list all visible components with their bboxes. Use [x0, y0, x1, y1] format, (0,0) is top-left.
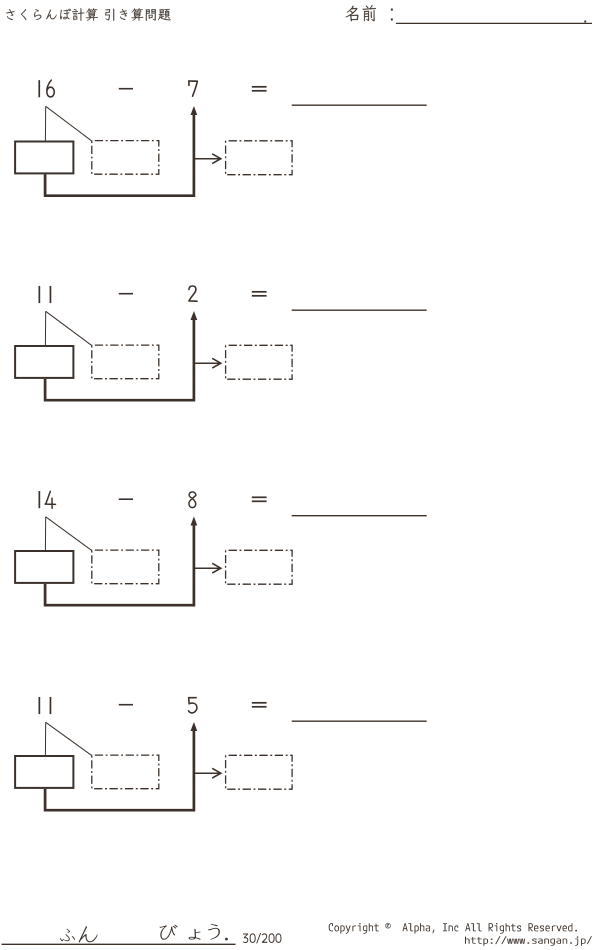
right arrow [195, 567, 220, 569]
name underline [396, 22, 592, 24]
solid answer box [15, 756, 73, 788]
page number 30/200 [243, 933, 282, 943]
dashed box 1 [92, 550, 159, 584]
answer blank line [292, 515, 427, 517]
answer blank line [292, 104, 427, 106]
cherry stem left branch [44, 106, 46, 140]
dashed box 1 [92, 345, 159, 379]
cherry stem right branch [46, 311, 92, 345]
solid answer box [15, 142, 73, 174]
footer period [225, 938, 228, 941]
footer underline [2, 943, 236, 945]
name colon [391, 9, 393, 11]
equals sign [252, 496, 267, 498]
thick feedback path [45, 524, 194, 606]
minus sign [119, 88, 133, 90]
right arrow [195, 362, 220, 364]
up arrowhead [191, 722, 198, 731]
subtrahend 5 [189, 698, 197, 713]
dashed result box [226, 141, 293, 175]
equals sign [252, 86, 267, 88]
problem 4: 11 minus 5 [15, 697, 427, 810]
answer blank line [292, 309, 427, 311]
problem 3: 14 minus 8 [15, 491, 427, 605]
minuend 16 [38, 80, 40, 97]
thick feedback path [45, 113, 194, 196]
minuend 11 [38, 697, 40, 714]
solid answer box [15, 346, 73, 378]
cherry stem right branch [46, 722, 92, 755]
problem 2: 11 minus 2 [15, 286, 427, 400]
right arrow [195, 772, 220, 774]
footer byou [160, 925, 178, 940]
minuend 11 [38, 286, 40, 303]
minus sign [119, 498, 133, 500]
name line period [584, 21, 586, 23]
equals sign [252, 291, 267, 293]
subtrahend 7 [189, 81, 197, 96]
cherry stem right branch [46, 517, 92, 551]
cherry stem left branch [44, 517, 46, 550]
minus sign [119, 293, 133, 295]
header title [6, 8, 171, 20]
cherry stem left branch [44, 722, 46, 755]
up arrowhead [191, 517, 198, 526]
cherry stem right branch [46, 106, 92, 141]
minuend 14 [38, 491, 40, 508]
thick feedback path [45, 729, 194, 810]
dashed result box [226, 755, 293, 789]
minus sign [119, 704, 133, 706]
name label 名前 [346, 6, 359, 22]
dashed box 1 [92, 755, 159, 789]
right arrow [195, 158, 220, 160]
dashed result box [226, 550, 293, 584]
footer fun [60, 929, 75, 942]
solid answer box [15, 551, 73, 583]
subtrahend 2 [189, 286, 197, 301]
thick feedback path [45, 318, 194, 400]
subtrahend 8 [189, 492, 196, 508]
up arrowhead [191, 311, 198, 320]
equals sign [252, 702, 267, 704]
copyright line [329, 923, 577, 934]
dashed result box [226, 345, 293, 379]
problem 1: 16 minus 7 [15, 80, 427, 196]
answer blank line [292, 720, 427, 722]
dashed box 1 [92, 141, 159, 175]
cherry stem left branch [44, 311, 46, 345]
url line [465, 936, 592, 946]
up arrowhead [191, 106, 198, 115]
